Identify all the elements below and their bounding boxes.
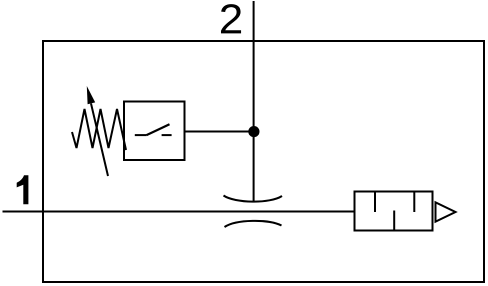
venturi nozzle bottom curve [225,221,282,227]
wire: switch to node [185,131,255,133]
silencer baffle lines [375,192,414,230]
port 1 label [17,175,29,204]
switch contact (inside box) [135,124,172,135]
silencer body [355,192,433,231]
venturi nozzle top curve [224,196,283,202]
adjustment arrow [87,86,108,176]
silencer outlet triangle [436,202,456,221]
wire: port 1 horizontal line [3,211,356,213]
wire: port 2 vertical line [253,1,255,202]
pressure switch box [124,102,185,161]
port 2 label [221,4,241,33]
enclosure frame [43,41,484,282]
spring (pressure setting) [72,109,126,150]
node junction dot [248,126,259,137]
